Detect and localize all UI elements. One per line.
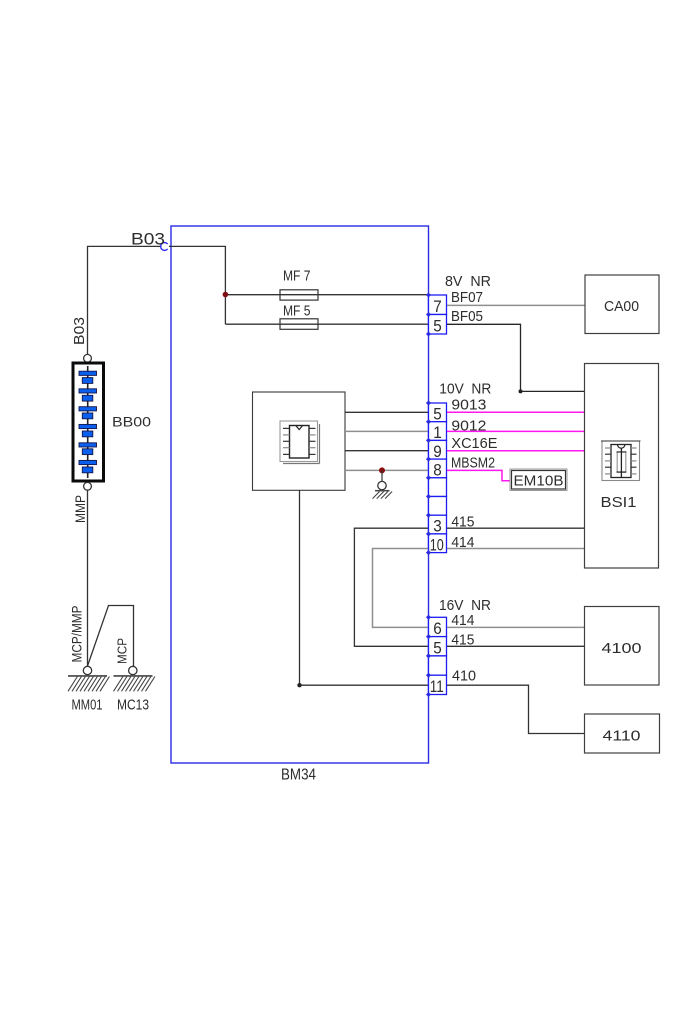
svg-text:10: 10 <box>430 536 444 554</box>
label 8V NR <box>445 273 491 290</box>
connector empty box 2 <box>429 497 447 516</box>
connector pin 5 (9013) <box>429 403 447 424</box>
svg-text:9013: 9013 <box>451 397 486 414</box>
junction dot on pin 8 wire <box>379 467 385 473</box>
wire module to pin 1 (9012) <box>345 430 429 432</box>
wire junction to MF7 to pin 7 <box>225 294 428 296</box>
svg-text:11: 11 <box>430 678 444 696</box>
label MMP rotated <box>72 495 88 523</box>
svg-text:415: 415 <box>451 632 474 649</box>
wire 414 pin 10 to BSI1 <box>447 534 585 551</box>
svg-text:MM01: MM01 <box>72 698 103 714</box>
svg-text:MCP: MCP <box>115 638 130 664</box>
wire module to pin 9 (XC16E) <box>345 450 429 452</box>
connector pin 6 (414) <box>429 617 447 638</box>
battery BB00 <box>73 354 151 490</box>
wire 414 pin 6 to 4100 <box>447 612 585 629</box>
svg-text:MCP/MMP: MCP/MMP <box>69 606 85 663</box>
svg-text:414: 414 <box>451 534 474 551</box>
svg-text:6: 6 <box>433 620 442 638</box>
svg-text:10V NR: 10V NR <box>439 381 491 398</box>
splice box EM10B <box>510 469 567 491</box>
connector pin 7 <box>429 295 447 316</box>
wire BF07 pin 7 to CA00 <box>447 289 585 306</box>
ground MC13 <box>114 666 155 713</box>
wire BF05 pin 5 to BSI1 <box>447 308 585 393</box>
svg-text:7: 7 <box>433 298 442 316</box>
internal module box in BM34 <box>253 392 346 490</box>
svg-text:MF 5: MF 5 <box>283 303 311 320</box>
wire 415 loop pin 3 to pin 5 <box>354 528 428 646</box>
wire 415 pin 5 to 4100 <box>447 632 585 649</box>
device box 4110 <box>585 714 660 753</box>
svg-text:5: 5 <box>433 318 442 336</box>
connector pin 11 (410) <box>429 675 447 696</box>
connector pin 3 (415) <box>429 515 447 536</box>
svg-text:MMP: MMP <box>72 495 88 523</box>
svg-text:9012: 9012 <box>451 418 486 435</box>
svg-text:XC16E: XC16E <box>451 435 497 452</box>
svg-text:B03: B03 <box>71 317 88 345</box>
svg-text:EM10B: EM10B <box>514 473 564 490</box>
IC icon U1 inside module <box>280 421 320 464</box>
wire 410 pin 11 to 4110 <box>447 668 585 734</box>
svg-text:CA00: CA00 <box>604 298 639 315</box>
label 10V NR <box>439 381 491 398</box>
ground at pin 8 wire <box>373 470 393 498</box>
node B03 <box>131 230 168 251</box>
connector pin 1 (9012) <box>429 422 447 443</box>
svg-text:8V NR: 8V NR <box>445 273 491 290</box>
fuse MF7 <box>280 268 318 301</box>
connector pin 8 (MBSM2) <box>429 459 447 480</box>
connector empty box 3 <box>429 656 447 675</box>
svg-text:MC13: MC13 <box>117 698 149 714</box>
svg-text:4110: 4110 <box>603 728 641 745</box>
wire module to pin 8 (MBSM2) <box>345 469 429 471</box>
wire battery to node B03 <box>88 246 162 354</box>
svg-text:414: 414 <box>451 612 474 629</box>
label B03 rotated on battery wire <box>71 317 88 345</box>
wire node B03 to fuse junction <box>169 246 226 294</box>
svg-text:9: 9 <box>433 443 442 461</box>
device box 4100 <box>585 607 660 686</box>
wire 415 pin 3 to BSI1 <box>447 514 585 531</box>
wire XC16E pin 9 to BSI1 <box>447 435 585 452</box>
wire MCP/MMP diagonal strap <box>88 606 134 667</box>
svg-text:BM34: BM34 <box>281 767 316 784</box>
connector pin 10 (414) <box>429 534 447 555</box>
connector pin 5 (BF05) <box>429 315 447 336</box>
wire MF5 branch to pin 5 <box>225 323 428 325</box>
svg-text:1: 1 <box>433 424 442 442</box>
wire MBSM2 pin 8 to EM10B <box>447 455 511 481</box>
wire 414 loop pin 10 to pin 6 <box>373 549 429 628</box>
svg-text:5: 5 <box>433 639 442 657</box>
wire 9012 pin 1 to BSI1 <box>447 418 585 435</box>
wire module to pin 5 (9013) <box>345 411 429 413</box>
svg-text:415: 415 <box>451 514 474 531</box>
label MCP rotated <box>115 638 130 664</box>
svg-text:3: 3 <box>433 518 442 536</box>
wire junction down to MF5 branch <box>224 294 226 324</box>
svg-text:410: 410 <box>452 668 476 685</box>
ECU box BM34 <box>171 226 429 784</box>
svg-text:BF07: BF07 <box>451 289 483 306</box>
wire MMP battery to ground <box>87 490 89 666</box>
svg-text:MBSM2: MBSM2 <box>451 455 495 472</box>
svg-text:BF05: BF05 <box>451 308 483 325</box>
svg-text:4100: 4100 <box>602 640 642 657</box>
device box BSI1 <box>585 364 659 569</box>
ground MM01 <box>68 666 109 713</box>
connector pin 9 (XC16E) <box>429 440 447 461</box>
svg-text:8: 8 <box>433 462 442 480</box>
connector corner ticks on BM34 edge <box>426 292 431 697</box>
BSI1 internal icon <box>601 441 641 481</box>
wire 9013 pin 5 to BSI1 <box>447 397 585 414</box>
connector pin 5 (415) <box>429 637 447 658</box>
junction dot at fuses <box>223 292 229 298</box>
svg-text:BSI1: BSI1 <box>601 494 637 511</box>
wire module down to 410 net <box>297 490 428 687</box>
svg-text:MF 7: MF 7 <box>283 268 311 285</box>
svg-text:B03: B03 <box>131 230 165 249</box>
device box CA00 <box>585 275 659 334</box>
label 16V NR <box>439 597 491 614</box>
fuse MF5 <box>280 303 318 330</box>
label MCP/MMP rotated <box>69 606 85 663</box>
svg-text:5: 5 <box>433 406 442 424</box>
svg-text:BB00: BB00 <box>112 414 151 430</box>
connector empty box 1 <box>429 478 447 497</box>
